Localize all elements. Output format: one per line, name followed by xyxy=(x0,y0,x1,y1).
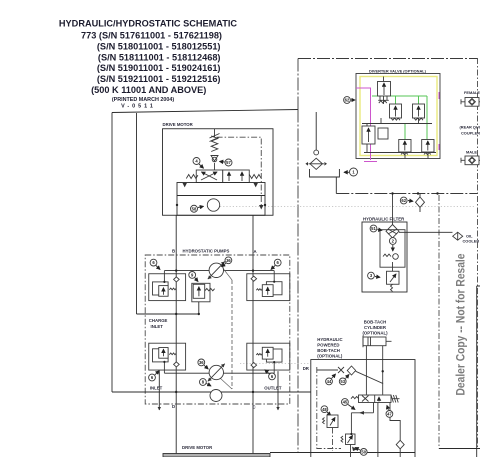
svg-text:36: 36 xyxy=(226,258,231,263)
svg-text:HYDRAULIC: HYDRAULIC xyxy=(317,337,342,342)
svg-text:(REAR QUICK: (REAR QUICK xyxy=(460,125,480,130)
svg-text:Dealer Copy -- Not for Resale: Dealer Copy -- Not for Resale xyxy=(455,253,468,395)
svg-text:OUTLET: OUTLET xyxy=(264,385,282,390)
svg-text:(OPTIONAL): (OPTIONAL) xyxy=(317,354,343,359)
svg-text:COOLER: COOLER xyxy=(463,239,480,244)
svg-text:DIVERTER VALVE (OPTIONAL): DIVERTER VALVE (OPTIONAL) xyxy=(369,68,427,73)
svg-text:HYDRAULIC/HYDROSTATIC SCHEMATI: HYDRAULIC/HYDROSTATIC SCHEMATIC xyxy=(59,19,237,29)
svg-text:(S/N 519211001 - 519212516): (S/N 519211001 - 519212516) xyxy=(97,74,221,84)
svg-text:HYDROSTATIC PUMPS: HYDROSTATIC PUMPS xyxy=(183,249,230,254)
svg-text:(S/N 519011001 - 519024161): (S/N 519011001 - 519024161) xyxy=(97,63,221,73)
svg-text:A: A xyxy=(254,249,257,254)
svg-text:(S/N 518111001 - 518112468): (S/N 518111001 - 518112468) xyxy=(98,52,221,62)
svg-text:44: 44 xyxy=(327,379,332,384)
svg-text:BOB-TACH: BOB-TACH xyxy=(364,320,387,325)
svg-text:45: 45 xyxy=(343,400,348,405)
svg-text:CYLINDER: CYLINDER xyxy=(364,325,387,330)
svg-text:51: 51 xyxy=(371,226,376,231)
svg-text:MALE: MALE xyxy=(466,150,477,155)
svg-text:INLET: INLET xyxy=(150,385,163,390)
svg-text:(500 K 11001 AND ABOVE): (500 K 11001 AND ABOVE) xyxy=(91,85,206,95)
svg-text:BOB-TACH: BOB-TACH xyxy=(317,348,340,353)
svg-text:47: 47 xyxy=(387,412,392,417)
svg-text:(PRINTED MARCH 2004): (PRINTED MARCH 2004) xyxy=(112,97,175,103)
svg-text:773 (S/N 517611001 - 517621198: 773 (S/N 517611001 - 517621198) xyxy=(81,30,222,40)
svg-text:POWERED: POWERED xyxy=(317,343,339,348)
svg-text:48: 48 xyxy=(322,407,327,412)
svg-text:DRIVE MOTOR: DRIVE MOTOR xyxy=(182,445,213,450)
svg-text:DRIVE MOTOR: DRIVE MOTOR xyxy=(163,122,194,127)
svg-text:FEMALE: FEMALE xyxy=(464,90,480,95)
svg-text:(S/N 518011001 - 518012551): (S/N 518011001 - 518012551) xyxy=(97,42,221,52)
svg-text:V-0511: V-0511 xyxy=(121,103,156,109)
svg-text:57: 57 xyxy=(226,160,231,165)
svg-text:COUPLERS): COUPLERS) xyxy=(461,131,480,136)
svg-text:INLET: INLET xyxy=(151,324,164,329)
svg-text:D: D xyxy=(172,404,175,409)
svg-text:62: 62 xyxy=(345,98,350,103)
svg-text:B: B xyxy=(172,249,175,254)
svg-text:36: 36 xyxy=(199,360,204,365)
svg-text:62: 62 xyxy=(401,198,406,203)
svg-text:DR: DR xyxy=(303,366,310,371)
svg-text:C: C xyxy=(253,405,256,410)
svg-text:53: 53 xyxy=(340,379,345,384)
svg-text:CHARGE: CHARGE xyxy=(149,318,168,323)
svg-text:58: 58 xyxy=(192,206,197,211)
svg-text:50: 50 xyxy=(361,450,366,455)
svg-text:HYDRAULIC FILTER: HYDRAULIC FILTER xyxy=(363,217,405,222)
svg-text:(OPTIONAL): (OPTIONAL) xyxy=(362,331,388,336)
